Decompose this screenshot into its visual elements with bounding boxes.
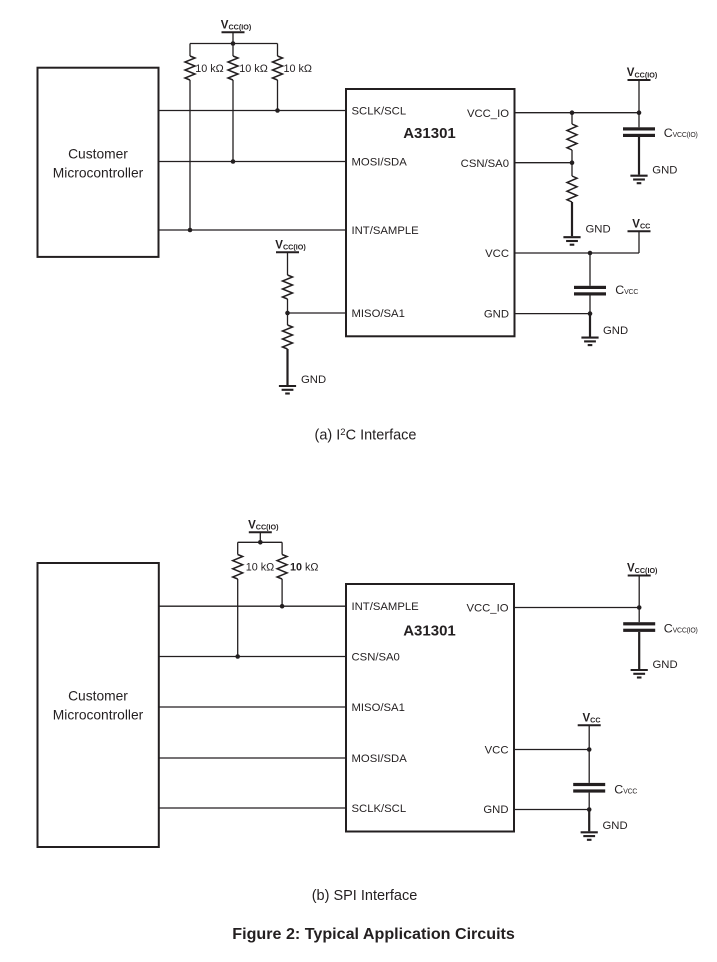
svg-text:MISO/SA1: MISO/SA1	[352, 308, 405, 320]
svg-text:GND: GND	[484, 309, 509, 321]
svg-text:GND: GND	[586, 224, 611, 236]
svg-text:Microcontroller: Microcontroller	[53, 708, 144, 723]
svg-text:CSN/SA0: CSN/SA0	[352, 652, 400, 664]
svg-text:(a) I2C Interface: (a) I2C Interface	[315, 427, 417, 444]
svg-text:Figure 2: Typical Application: Figure 2: Typical Application Circuits	[232, 925, 515, 943]
svg-text:SCLK/SCL: SCLK/SCL	[352, 803, 407, 815]
svg-text:10 kΩ: 10 kΩ	[246, 561, 274, 573]
svg-text:VCC: VCC	[485, 248, 509, 260]
svg-text:SCLK/SCL: SCLK/SCL	[352, 106, 407, 118]
svg-text:A31301: A31301	[403, 623, 456, 640]
svg-text:VCC: VCC	[485, 745, 509, 757]
svg-text:INT/SAMPLE: INT/SAMPLE	[352, 601, 420, 613]
svg-text:10 kΩ: 10 kΩ	[284, 63, 312, 75]
svg-text:INT/SAMPLE: INT/SAMPLE	[352, 225, 420, 237]
svg-text:Customer: Customer	[68, 146, 128, 161]
svg-text:A31301: A31301	[403, 125, 456, 142]
svg-text:(b) SPI Interface: (b) SPI Interface	[312, 888, 418, 904]
svg-text:VCC_IO: VCC_IO	[467, 108, 509, 120]
svg-text:10 kΩ: 10 kΩ	[290, 561, 319, 573]
svg-text:MOSI/SDA: MOSI/SDA	[352, 753, 408, 765]
svg-text:MISO/SA1: MISO/SA1	[352, 702, 405, 714]
svg-text:10 kΩ: 10 kΩ	[239, 63, 267, 75]
svg-text:10 kΩ: 10 kΩ	[195, 63, 223, 75]
svg-text:CSN/SA0: CSN/SA0	[461, 158, 509, 170]
svg-text:VCC_IO: VCC_IO	[466, 603, 508, 615]
svg-text:Microcontroller: Microcontroller	[53, 165, 144, 180]
svg-text:GND: GND	[603, 820, 628, 832]
svg-text:Customer: Customer	[68, 689, 128, 704]
svg-text:GND: GND	[652, 164, 677, 176]
svg-text:GND: GND	[603, 325, 628, 337]
svg-text:MOSI/SDA: MOSI/SDA	[352, 157, 408, 169]
svg-text:GND: GND	[301, 374, 326, 386]
svg-text:GND: GND	[653, 659, 678, 671]
svg-text:GND: GND	[483, 804, 508, 816]
